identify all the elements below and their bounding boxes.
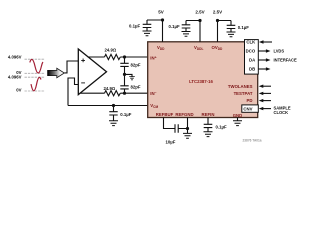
capacitor C4 0.1uF (VDD) [143, 20, 152, 31]
ground (VDDLBYP cap) [182, 32, 191, 37]
wire: REFBUF pin down [164, 118, 176, 129]
arrow: PD input [262, 100, 271, 102]
node: 4.096V level line (wave 2) [25, 76, 46, 78]
svg-text:4.096V: 4.096V [8, 55, 22, 60]
svg-text:LTC2387-16: LTC2387-16 [189, 79, 213, 84]
wire: REFIN pin down [204, 118, 213, 132]
wire: op-amp bottom output to IN- [81, 92, 148, 94]
wire: VCM line [68, 105, 148, 107]
svg-text:DA: DA [249, 58, 255, 63]
node B: junction dot mid caps [123, 73, 126, 76]
svg-text:REFBUF: REFBUF [156, 112, 174, 117]
svg-text:2.5V: 2.5V [195, 10, 204, 15]
arrow: CLK input [262, 41, 272, 43]
svg-text:82pF: 82pF [131, 63, 141, 68]
svg-text:DCO: DCO [246, 49, 256, 54]
svg-text:VCM: VCM [150, 103, 158, 109]
node C: junction dot on IN- line [123, 92, 126, 95]
IC U2 LTC2387-16 body [148, 42, 258, 118]
node A: junction dot on IN+ line [123, 55, 126, 58]
wire: 2.5V rail to VDDLBYP [186, 21, 200, 42]
ground (OVDD cap) [227, 32, 236, 37]
svg-text:4.096V: 4.096V [8, 75, 22, 80]
wire: 5V rail to VDD [147, 20, 163, 42]
svg-text:10µF: 10µF [166, 139, 176, 144]
node: 4.096V level line (wave 1) [25, 58, 46, 60]
svg-text:OVDD: OVDD [212, 45, 224, 51]
svg-text:82pF: 82pF [131, 84, 141, 89]
svg-text:INTERFACE: INTERFACE [274, 58, 297, 63]
wire: mid node to small ground [125, 74, 133, 76]
arrow: TESTPAT input [262, 92, 271, 94]
capacitor C1 82pF (top) [120, 57, 128, 74]
ground (REFIN cap) [204, 132, 213, 137]
svg-text:VDDL: VDDL [194, 45, 203, 51]
capacitor C2 82pF (bottom) [120, 74, 128, 93]
capacitor C3 0.1uF (VCM) [109, 106, 117, 121]
op-amp U1 (fully differential driver) [78, 49, 106, 95]
svg-text:GND: GND [233, 113, 243, 118]
svg-text:5V: 5V [158, 10, 164, 15]
svg-text:0.1µF: 0.1µF [129, 23, 140, 28]
svg-text:TWOLANES: TWOLANES [228, 84, 253, 89]
svg-text:TESTPAT: TESTPAT [234, 91, 253, 96]
svg-text:CLOCK: CLOCK [274, 110, 289, 115]
LVDS pin box (CLK DCO DA DB) [245, 40, 259, 75]
svg-text:REFIN: REFIN [202, 112, 215, 117]
arrow: DB output [259, 68, 267, 70]
wire: arrow to op-amp + input [65, 61, 79, 73]
wire: GND pin down [237, 118, 239, 121]
svg-text:0.1µF: 0.1µF [120, 112, 131, 117]
node: 2.5V rail dot [198, 19, 201, 22]
CNV pin box [242, 105, 258, 112]
wire: REFGND pin down [178, 118, 187, 134]
op-amp - sign [81, 82, 85, 84]
svg-text:PD: PD [247, 98, 253, 103]
wire: op-amp top output to IN+ [88, 56, 148, 58]
node: 0V level line (wave 1) [25, 72, 46, 74]
svg-text:0.1µF: 0.1µF [238, 25, 249, 30]
source sine wave 1 [30, 59, 43, 73]
svg-text:LVDS: LVDS [274, 49, 285, 54]
node: 2.5V OVDD rail dot [216, 19, 219, 22]
ground (VDD cap) [143, 31, 152, 36]
resistor R2 24.9 ohm (bottom) [105, 91, 121, 96]
node: REFGND junction dot [186, 127, 189, 130]
arrow: DA output [259, 59, 267, 61]
node D: junction dot on VCM line [112, 104, 115, 107]
svg-text:0.1µF: 0.1µF [216, 124, 227, 129]
node: 0V level line (wave 2) [25, 90, 46, 92]
capacitor C7 10uF (REFBUF) [175, 124, 178, 133]
svg-text:0V: 0V [16, 88, 21, 93]
source sine wave 2 [31, 77, 41, 90]
svg-text:REFGND: REFGND [175, 112, 193, 117]
svg-text:CNV: CNV [243, 106, 252, 111]
svg-text:23876 TA01a: 23876 TA01a [243, 138, 262, 142]
ground (mid, small) [129, 77, 135, 80]
capacitor C6 0.1uF (OVDD) [227, 21, 236, 33]
wire: 2.5V rail to OVDD [218, 21, 232, 42]
ground (REFGND) [183, 133, 192, 138]
svg-text:DB: DB [249, 67, 255, 72]
svg-text:2.5V: 2.5V [213, 10, 222, 15]
svg-text:24.9Ω: 24.9Ω [104, 86, 116, 91]
arrow: CNV input [262, 108, 271, 110]
resistor R1 24.9 ohm (top) [105, 54, 121, 59]
node: 5V rail dot [161, 18, 164, 21]
ground (GND pin) [233, 121, 242, 126]
wire: VCM net to op-amp - input [68, 78, 78, 106]
arrow: DCO output [259, 50, 267, 52]
svg-text:VDD: VDD [157, 45, 165, 51]
ground (VCM cap) [109, 121, 118, 126]
op-amp + sign [81, 59, 85, 63]
block arrow (signal flow) [48, 68, 65, 78]
svg-text:0.1µF: 0.1µF [169, 24, 180, 29]
capacitor C5 0.1uF (VDDLBYP) [182, 21, 191, 32]
arrow: TWOLANES input [262, 85, 271, 87]
svg-text:24.9Ω: 24.9Ω [105, 48, 117, 53]
svg-text:CLK: CLK [246, 40, 256, 45]
